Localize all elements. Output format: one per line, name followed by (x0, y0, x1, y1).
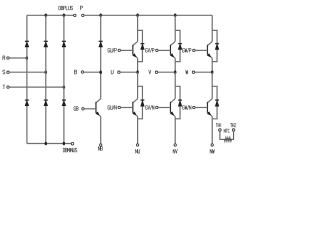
terminal GU/N gate lower U (108, 105, 121, 109)
diode D6 rectifier lower (62, 100, 66, 106)
terminal NB (98, 144, 102, 151)
wire GB gate (84, 108, 96, 110)
node top bus column T (63, 14, 66, 17)
node U midpoint (136, 70, 139, 74)
terminal GW/N gate lower W (183, 105, 196, 109)
terminal R (3, 56, 9, 60)
label TH1 (216, 123, 221, 127)
wire brake column (100, 15, 102, 98)
terminal GB gate of brake (74, 107, 84, 111)
label NTC (224, 129, 229, 133)
terminal B (74, 70, 83, 74)
terminal GV/N gate lower V (146, 105, 159, 109)
terminal NW (210, 144, 214, 153)
wire GU/N gate (120, 107, 132, 109)
transistor Q2 lower U-phase (133, 72, 138, 144)
transistor Q6 lower W-phase (207, 72, 212, 144)
terminal S (3, 70, 9, 74)
diode D5 rectifier lower (44, 100, 48, 106)
node top bus leg U (136, 14, 139, 17)
node B brake column (99, 70, 102, 74)
diode D7 brake (99, 41, 103, 47)
node W midpoint (211, 70, 214, 74)
terminal GU/P gate upper U (108, 48, 121, 52)
transistor QB brake chopper (96, 99, 101, 144)
diode D8 freewheel upper U (138, 30, 145, 61)
wire GU/P gate (120, 49, 132, 51)
node T column (63, 85, 66, 89)
wire GW/P gate (195, 49, 207, 51)
label TH2 (230, 123, 236, 127)
terminal NU (135, 144, 139, 153)
terminal DBPLUS (59, 6, 76, 17)
terminal V phase output (149, 70, 158, 74)
wire R input (9, 57, 27, 59)
wire rectifier column S (45, 15, 47, 143)
terminal DBMINUS (63, 142, 77, 152)
wire V phase (158, 71, 175, 73)
terminal NV (173, 144, 177, 153)
diode D12 freewheel upper W (212, 30, 219, 61)
wire top DC bus right segment (84, 14, 212, 16)
thermistor NTC resistor element (220, 131, 234, 141)
diode D9 freewheel lower U (138, 86, 145, 119)
diode D10 freewheel upper V (175, 30, 182, 61)
diode D11 freewheel lower V (175, 86, 182, 119)
diode D13 freewheel lower W (212, 86, 219, 119)
wire T input (9, 86, 64, 88)
node bottom bus column S (45, 142, 48, 146)
wire bottom DC bus (27, 143, 71, 145)
diode D4 rectifier lower (25, 100, 29, 106)
transistor Q4 lower V-phase (170, 72, 175, 144)
terminal GW/P gate upper W (183, 48, 196, 52)
diode D2 rectifier upper (44, 41, 48, 47)
node R column (26, 56, 29, 60)
wire S input (9, 71, 46, 73)
node top bus brake column (99, 14, 102, 17)
terminal W phase output (186, 70, 195, 74)
diode D3 rectifier upper (62, 41, 66, 47)
node top bus column S (45, 14, 48, 17)
transistor Q5 upper W-phase (207, 15, 212, 72)
wire GW/N gate (195, 107, 207, 109)
transistor Q3 upper V-phase (170, 15, 175, 72)
wire rectifier column T (63, 15, 65, 143)
wire B to brake column (84, 71, 101, 73)
terminal GV/P gate upper V (146, 48, 159, 52)
terminal P (80, 6, 84, 17)
wire GV/N gate (158, 107, 170, 109)
wire W phase (195, 71, 212, 73)
wire rectifier column R (26, 15, 28, 143)
transistor Q1 upper U-phase (133, 15, 138, 72)
node bottom bus column T (63, 142, 66, 146)
node top bus leg V (174, 14, 177, 17)
diode D1 rectifier upper (25, 41, 29, 47)
wire top DC bus left segment (27, 14, 74, 16)
wire U phase (120, 71, 137, 73)
terminal T (3, 85, 9, 89)
terminal TH2 (232, 129, 235, 132)
node V midpoint (174, 70, 177, 74)
terminal TH1 (219, 129, 222, 132)
wire GV/P gate (158, 49, 170, 51)
terminal U phase output (111, 70, 120, 74)
node S column (45, 70, 48, 74)
